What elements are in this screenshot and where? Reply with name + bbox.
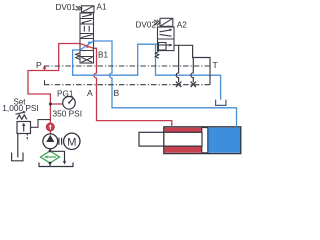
svg-text:DV02: DV02 [136,20,157,29]
svg-text:PG1: PG1 [57,90,74,99]
svg-text:T: T [213,60,218,70]
svg-text:A2: A2 [177,20,187,29]
svg-text:A1: A1 [97,3,107,12]
svg-text:A: A [87,88,93,98]
svg-text:B1: B1 [98,51,108,60]
svg-text:P: P [36,60,42,70]
svg-text:M: M [67,136,76,148]
svg-text:1,000 PSI: 1,000 PSI [2,103,38,113]
svg-text:350 PSI: 350 PSI [53,109,83,119]
svg-text:B: B [114,88,120,98]
svg-text:DV01: DV01 [56,3,77,12]
